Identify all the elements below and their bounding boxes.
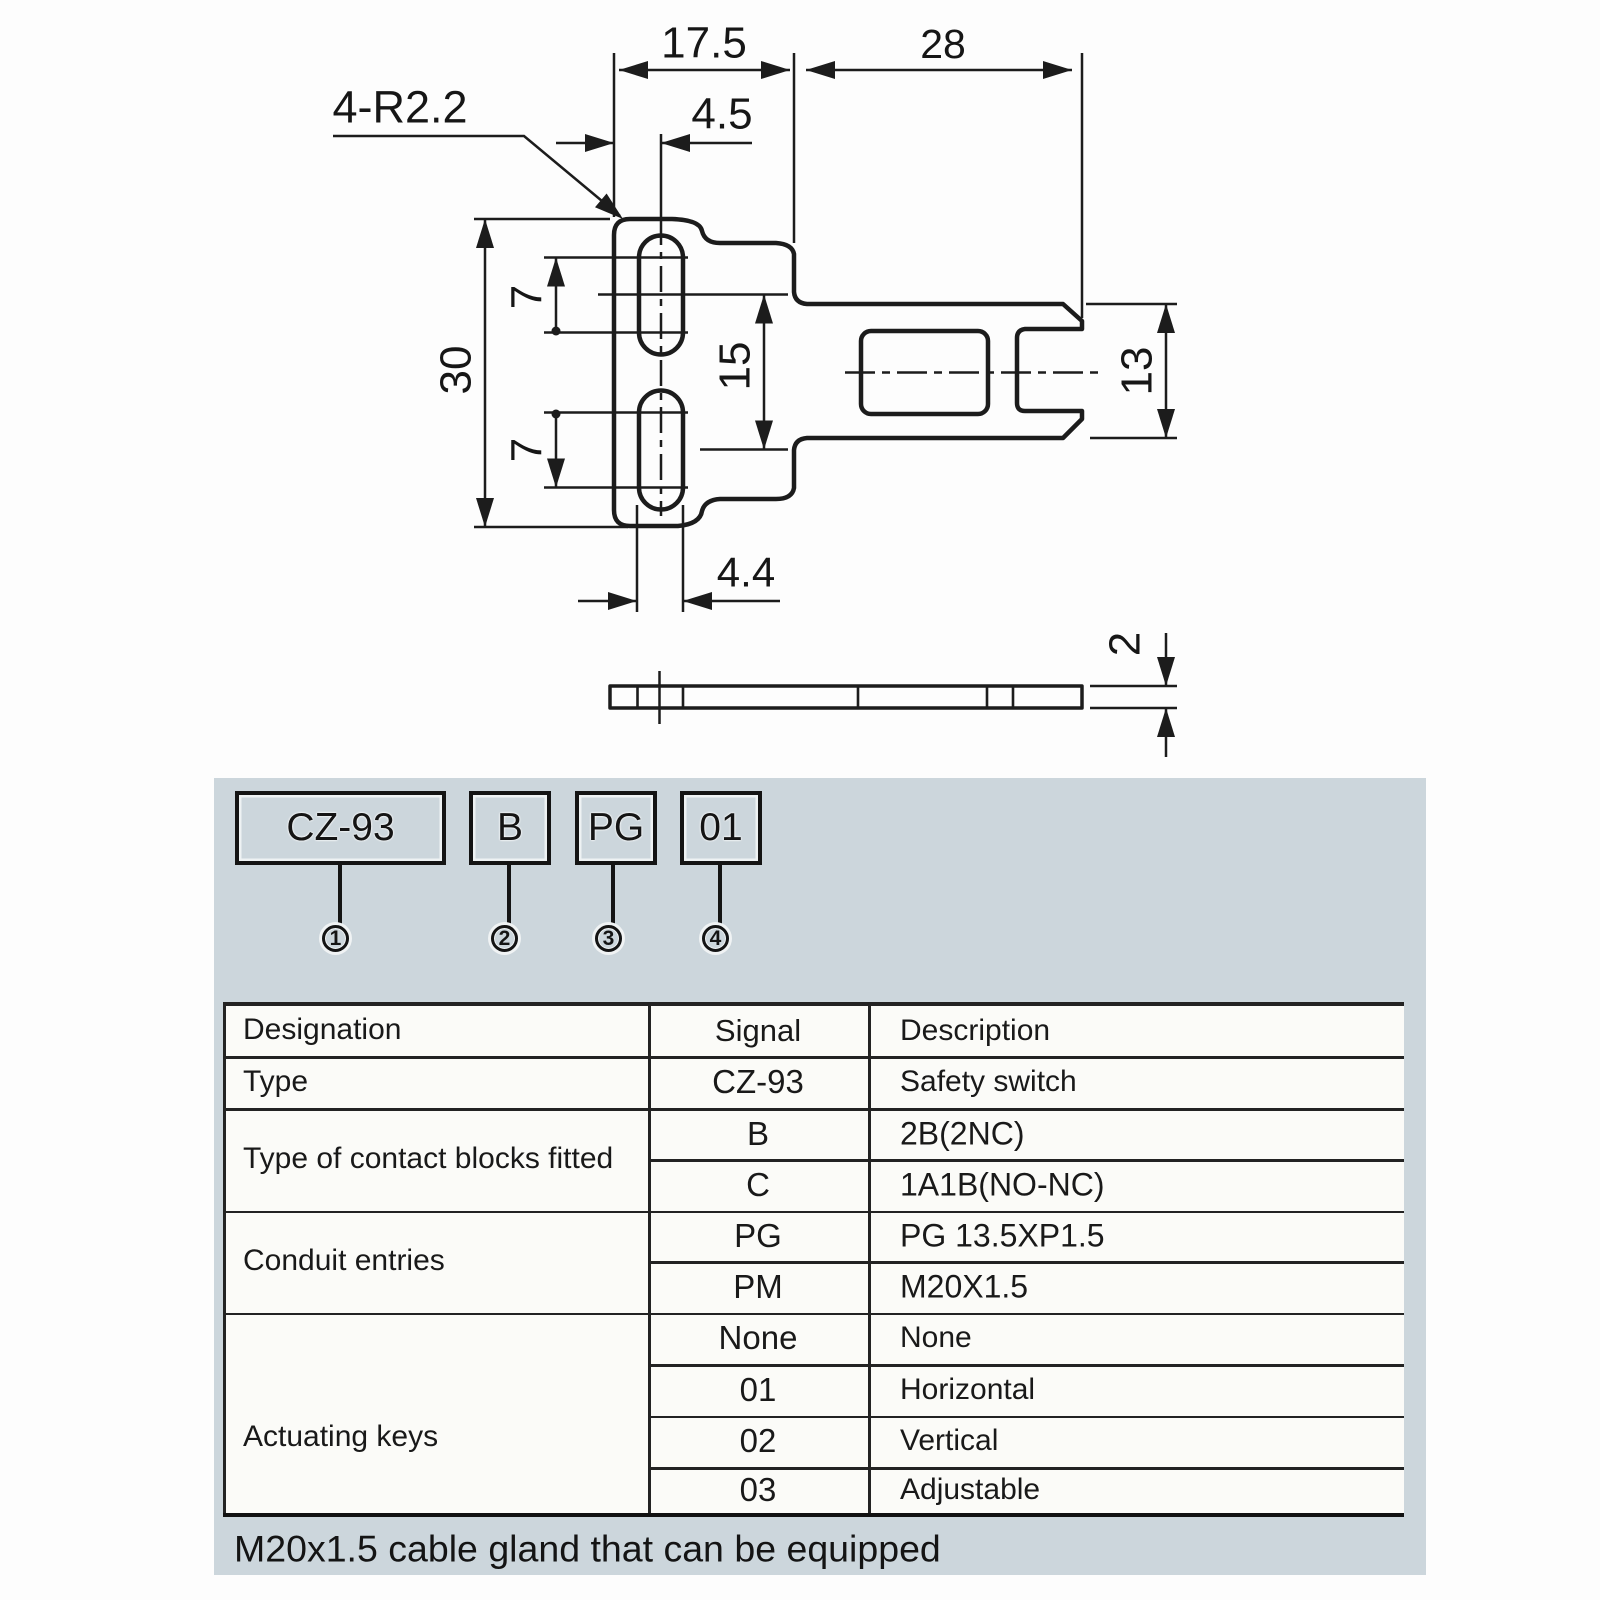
svg-text:15: 15 — [711, 342, 760, 391]
svg-text:17.5: 17.5 — [661, 19, 747, 68]
svg-text:7: 7 — [503, 285, 552, 309]
svg-text:30: 30 — [432, 346, 481, 395]
svg-text:7: 7 — [503, 438, 552, 462]
svg-text:4.4: 4.4 — [717, 549, 775, 596]
svg-text:28: 28 — [920, 21, 966, 67]
svg-text:4-R2.2: 4-R2.2 — [332, 82, 467, 133]
svg-text:13: 13 — [1113, 347, 1162, 396]
svg-text:2: 2 — [1101, 632, 1150, 656]
svg-text:4.5: 4.5 — [691, 90, 752, 139]
